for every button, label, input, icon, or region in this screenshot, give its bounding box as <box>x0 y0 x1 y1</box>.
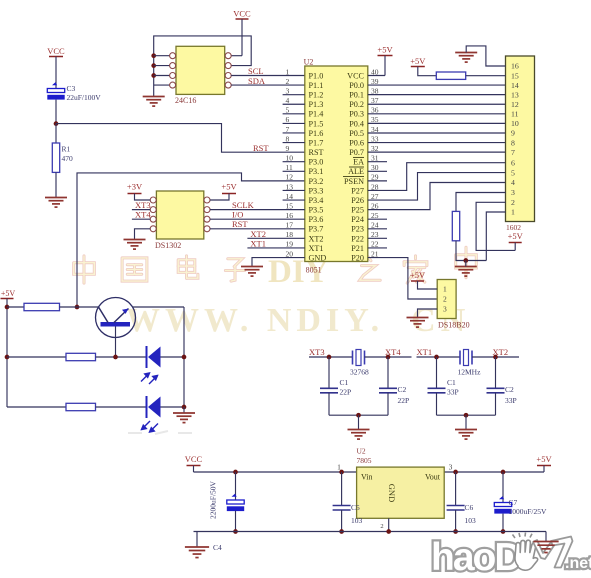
svg-text:P0.6: P0.6 <box>349 138 364 147</box>
svg-text:33P: 33P <box>505 396 517 405</box>
wire LED1 to right rail <box>161 356 185 358</box>
wire P27 (pin28) to LCD pin6 <box>368 163 506 191</box>
crystal Y? 12MHz [MCU osc] <box>460 350 472 366</box>
8051 left unconnected pin stubs <box>283 95 305 200</box>
svg-text:C7: C7 <box>509 498 518 507</box>
label DS18B20 <box>438 321 470 330</box>
junction left rail row1 <box>5 305 10 310</box>
svg-text:3: 3 <box>511 188 515 197</box>
crystal Y? 32768 [RTC osc] <box>353 350 365 366</box>
wire right rail to ground <box>183 407 185 413</box>
value 103 (C5) <box>351 516 363 525</box>
svg-text:1: 1 <box>511 208 515 217</box>
IC U2 8051 body <box>305 66 368 262</box>
junction C6 bottom <box>453 529 458 534</box>
svg-text:P3.0: P3.0 <box>309 158 324 167</box>
wire rail to 24C16 pin2 <box>154 65 170 67</box>
wire P0.5 (pin 34) to LCD pin 9 <box>368 132 506 134</box>
capacitor C2 22P [RTC osc] <box>379 388 397 393</box>
net label XT3 (DS1302) <box>135 200 151 210</box>
svg-text:P25: P25 <box>351 206 364 215</box>
wire GND (pin20) to ground <box>252 258 305 267</box>
svg-text:U2: U2 <box>304 58 314 67</box>
capacitor C6 103 <box>447 506 465 511</box>
svg-text:5: 5 <box>511 168 515 177</box>
ground (LED block) <box>173 413 195 423</box>
value 470 <box>62 154 74 163</box>
svg-text:XT2: XT2 <box>250 229 266 239</box>
IC DS1302 RTC <box>150 191 210 239</box>
ground (supply right) <box>533 542 558 553</box>
svg-text:P21: P21 <box>351 244 364 253</box>
svg-text:1: 1 <box>337 463 341 472</box>
net label RST <box>253 143 269 153</box>
ground (24C16) <box>143 97 165 107</box>
svg-text:+5V: +5V <box>221 182 237 192</box>
ground (LCD pin16) <box>455 53 477 63</box>
svg-text:P1.0: P1.0 <box>309 71 324 80</box>
power +5V (DS1302 pin8) <box>210 182 237 201</box>
wire to capacitor C1 [RTC osc] <box>328 357 330 388</box>
ground (8051 pin20) <box>241 267 263 277</box>
wire C7 top <box>502 472 504 503</box>
svg-text:P1.6: P1.6 <box>309 129 324 138</box>
svg-text:1: 1 <box>286 67 290 76</box>
wire row1 to resistor R2 <box>7 306 24 308</box>
wire P0.7 (pin 32) to LCD pin 7 <box>368 151 506 153</box>
svg-text:103: 103 <box>351 516 363 525</box>
wire crystal to XT4 [RTC osc] <box>365 356 412 358</box>
regulator U2 7805 body <box>357 467 445 518</box>
wire C6 bottom <box>455 510 457 532</box>
junction XT1 [MCU osc] <box>434 355 439 360</box>
ground (DS18B20) <box>407 318 429 328</box>
ground (32768 circuit) [RTC osc] <box>348 430 370 440</box>
watermark char jia <box>404 256 427 283</box>
wire C2 to bottom rail [RTC osc] <box>387 393 389 415</box>
svg-text:12MHz: 12MHz <box>458 368 482 377</box>
svg-text:P20: P20 <box>351 253 364 262</box>
wire P0.4 (pin 35) to LCD pin 10 <box>368 122 506 124</box>
power +5V (LCD pin2) <box>508 231 524 250</box>
label C7 <box>509 498 518 507</box>
value 33P [MCU osc] <box>505 396 517 405</box>
wire P0.2 (pin 37) to LCD pin 12 <box>368 103 506 105</box>
svg-text:R1: R1 <box>62 145 71 154</box>
label 1602 <box>506 223 521 232</box>
svg-text:P1.5: P1.5 <box>309 119 324 128</box>
ground (DS1302) <box>124 240 146 250</box>
svg-text:DS18B20: DS18B20 <box>438 321 470 330</box>
wire C4 bottom <box>235 511 237 532</box>
wire C6 top <box>455 472 457 506</box>
wire rail to 24C16 pin1 <box>154 55 170 57</box>
svg-text:C2: C2 <box>398 385 407 394</box>
ground (12MHz circuit) [MCU osc] <box>455 430 477 440</box>
junction right rail row3 <box>182 405 187 410</box>
wire crystal to XT2 [MCU osc] <box>472 356 519 358</box>
svg-text:C2: C2 <box>505 385 514 394</box>
wire P0.3 (pin 36) to LCD pin 11 <box>368 113 506 115</box>
svg-text:11: 11 <box>511 110 519 119</box>
svg-text:P1.1: P1.1 <box>309 81 324 90</box>
wire rail to 24C16 pin4 <box>154 84 170 86</box>
wire R4 to LED2 <box>96 406 147 408</box>
junction C5 bottom <box>339 529 344 534</box>
value 2200uF/50V (rotated) <box>209 480 218 519</box>
power VCC (top-left) <box>47 46 65 89</box>
label DS1302 <box>155 241 181 250</box>
wire rail to ground [RTC osc] <box>358 415 360 429</box>
svg-text:2200uF/50V: 2200uF/50V <box>209 480 218 519</box>
power +5V (LCD pin15 backlight) <box>410 56 436 76</box>
wire transistor right to right rail <box>133 306 185 308</box>
label C1 [MCU osc] <box>447 378 456 387</box>
watermark char dian <box>178 256 198 278</box>
net label SCLK <box>232 200 255 210</box>
ground (supply left) <box>185 547 209 558</box>
junction 7805 gnd on bottom rail <box>386 529 391 534</box>
svg-text:XT3: XT3 <box>309 347 325 357</box>
wire 7805 GND pin2 stub <box>388 518 390 531</box>
svg-text:SDA: SDA <box>248 76 266 86</box>
junction bottom rail [MCU osc] <box>464 413 469 418</box>
junction XT2 [MCU osc] <box>493 355 498 360</box>
wire rail to 24C16 pin3 <box>154 75 170 77</box>
wire LED2 to right rail <box>161 406 185 408</box>
svg-text:P1.3: P1.3 <box>309 100 324 109</box>
logo haoDIY.net <box>431 533 591 578</box>
svg-text:14: 14 <box>511 81 519 90</box>
junction C7 top <box>501 470 506 475</box>
8051 left pin names <box>309 71 327 262</box>
power +3V (DS1302 pin1) <box>127 182 150 201</box>
8051 right pin names (EA ALE PSEN with overline) <box>343 71 365 262</box>
svg-text:SCL: SCL <box>248 66 264 76</box>
svg-text:VCC: VCC <box>233 9 251 19</box>
value 32768 [RTC osc] <box>350 368 369 377</box>
svg-text:haoD: haoD <box>431 536 521 578</box>
capacitor C1 22P [RTC osc] <box>320 388 338 393</box>
power +5V (DS18B20 pin1) <box>410 270 437 289</box>
watermark faint residue <box>128 431 192 434</box>
wire I/O DS1302 to 8051 pin16 <box>210 218 305 220</box>
wire C5 top <box>341 472 343 506</box>
svg-text:C6: C6 <box>465 503 474 512</box>
junction left rail row2 <box>5 355 10 360</box>
wire C7 bottom <box>502 514 504 532</box>
svg-text:3: 3 <box>449 463 453 472</box>
capacitor C1 33P [MCU osc] <box>428 388 446 393</box>
value 103 (C6) <box>465 516 477 525</box>
svg-text:+5V: +5V <box>410 270 426 280</box>
DS18B20 pin numbers <box>443 285 447 314</box>
svg-text:13: 13 <box>511 90 519 99</box>
wire bottom rail [MCU osc] <box>437 414 496 416</box>
wire supply bottom rail <box>194 531 547 533</box>
junction C4 bottom <box>233 529 238 534</box>
junction right rail row2 <box>182 355 187 360</box>
svg-text:XT1: XT1 <box>309 244 324 253</box>
svg-text:ALE: ALE <box>348 167 364 176</box>
svg-text:P3.2: P3.2 <box>309 177 324 186</box>
svg-text:XT3: XT3 <box>135 200 151 210</box>
power +5V (8051 VCC pin40) <box>368 45 394 76</box>
wire left rail vertical <box>6 307 8 407</box>
svg-text:P0.4: P0.4 <box>349 119 364 128</box>
wire C3 to node A <box>55 100 57 124</box>
junction XT4 [RTC osc] <box>386 355 391 360</box>
svg-text:15: 15 <box>511 71 519 80</box>
wire resistor to LCD pin15 <box>466 75 506 77</box>
ground (below R1) <box>45 198 67 208</box>
svg-text:7805: 7805 <box>357 456 372 465</box>
wire node A to 8051 RST pin 9 <box>56 124 305 153</box>
svg-text:22P: 22P <box>398 396 410 405</box>
wire row2 to resistor R3 <box>7 356 66 358</box>
wire bottom rail right stem <box>545 532 547 542</box>
wire 24C16 pin7 loop to ground rail <box>154 36 252 97</box>
power VCC (supply input) <box>185 454 203 472</box>
value 22P [RTC osc] <box>398 396 410 405</box>
capacitor C4 2200uF/50V <box>227 494 244 511</box>
svg-text:P3.4: P3.4 <box>309 196 324 205</box>
wire DS1302 pin4 to ground <box>135 229 151 240</box>
svg-text:+3V: +3V <box>127 182 143 192</box>
label 24C16 <box>175 96 196 105</box>
wire right rail vertical <box>183 307 185 407</box>
svg-text:C1: C1 <box>447 378 456 387</box>
wire rail to ground [MCU osc] <box>465 415 467 429</box>
wire DS18B20 pin3 to ground <box>418 309 438 318</box>
svg-text:Vin: Vin <box>361 473 373 482</box>
watermark char zhi <box>360 257 381 280</box>
ground (node C) <box>455 267 477 277</box>
svg-text:P26: P26 <box>351 196 364 205</box>
svg-text:9: 9 <box>511 129 515 138</box>
wire DS1302 XT4 pin <box>132 218 150 220</box>
node B junction (base rail) <box>75 305 80 310</box>
net label XT2 [MCU osc] <box>493 347 509 357</box>
junction bottom rail [RTC osc] <box>356 413 361 418</box>
wire R2 to transistor <box>60 306 99 308</box>
wire VCC to 24C16 pin8 <box>231 55 242 57</box>
svg-text:2: 2 <box>443 295 447 304</box>
wire crystal net XT1 [MCU osc] <box>417 356 461 358</box>
svg-text:DS1302: DS1302 <box>155 241 181 250</box>
designator U2 (8051) <box>304 58 314 67</box>
wire RST DS1302 to 8051 pin17 <box>210 228 305 230</box>
pin number 3 (7805) <box>449 463 453 472</box>
svg-text:+5V: +5V <box>1 289 16 298</box>
svg-text:+5V: +5V <box>508 231 524 241</box>
capacitor C7 1000uF/25V <box>494 496 511 513</box>
svg-text:P3.6: P3.6 <box>309 215 324 224</box>
wire to capacitor C1 [MCU osc] <box>436 357 438 388</box>
junction C7 bottom <box>501 529 506 534</box>
8051 right pin numbers 40-21 <box>371 67 379 258</box>
wire P0.1 (pin 38) to LCD pin 13 <box>368 94 506 96</box>
svg-text:32768: 32768 <box>350 368 369 377</box>
wire P0.0 (pin 39) to LCD pin 14 <box>368 84 506 86</box>
wire SCL 24C16 to 8051 pin1 <box>231 75 305 77</box>
svg-text:GND: GND <box>387 484 397 502</box>
node A junction <box>54 121 59 126</box>
sensor DS18B20 body <box>437 280 456 319</box>
capacitor C5 103 <box>333 506 351 511</box>
svg-text:470: 470 <box>62 154 74 163</box>
junction C5 top <box>339 470 344 475</box>
wire C1 to bottom rail [RTC osc] <box>328 393 330 415</box>
svg-text:P0.1: P0.1 <box>349 91 364 100</box>
connector 1602 LCD body <box>506 56 535 222</box>
svg-text:P24: P24 <box>351 215 364 224</box>
svg-text:P27: P27 <box>351 186 364 195</box>
wire DS1302 XT3 pin <box>132 209 150 211</box>
watermark char zhong(2) partial <box>456 247 477 278</box>
value 33P [MCU osc] <box>447 388 459 397</box>
label 7805 <box>357 456 372 465</box>
svg-text:+5V: +5V <box>377 45 393 55</box>
svg-text:SCLK: SCLK <box>232 200 255 210</box>
svg-text:P3.1: P3.1 <box>309 167 324 176</box>
label C4 <box>213 543 222 552</box>
svg-text:EA: EA <box>353 158 364 167</box>
wire crystal net XT3 [RTC osc] <box>309 356 353 358</box>
wire bottom rail [RTC osc] <box>329 414 388 416</box>
wire contrast resistor to node C <box>456 241 486 261</box>
wire LCD pin1 to node C <box>486 212 505 261</box>
svg-text:P1.4: P1.4 <box>309 110 324 119</box>
net label XT2 <box>250 229 266 239</box>
net label XT3 [RTC osc] <box>309 347 325 357</box>
resistor R4 (LED2 row) <box>66 403 96 410</box>
wire P0.6 (pin 33) to LCD pin 8 <box>368 142 506 144</box>
svg-text:103: 103 <box>465 516 477 525</box>
junction transistor base on row2 <box>113 355 118 360</box>
net label XT1 <box>250 239 266 249</box>
pin number 1 (7805) <box>337 463 341 472</box>
junction XT3 [RTC osc] <box>327 355 332 360</box>
wire XT2 (pin18) <box>247 237 304 239</box>
svg-text:XT2: XT2 <box>309 234 324 243</box>
svg-text:7: 7 <box>511 148 515 157</box>
svg-text:16: 16 <box>511 62 519 71</box>
svg-text:P1.2: P1.2 <box>309 91 324 100</box>
8051 right unconnected pin stubs <box>368 162 387 248</box>
label C1 [RTC osc] <box>340 378 349 387</box>
junction 24C16 left pin3 <box>151 73 156 78</box>
svg-text:22P: 22P <box>340 388 352 397</box>
svg-text:10: 10 <box>511 119 519 128</box>
svg-text:P22: P22 <box>351 234 364 243</box>
net label I/O <box>232 210 243 220</box>
wire 8051 pin12 P3.2 to left circuit <box>77 173 305 307</box>
svg-text:VCC: VCC <box>185 454 203 464</box>
resistor R? (LCD contrast) <box>452 211 459 240</box>
value 22P [RTC osc] <box>340 388 352 397</box>
svg-text:+5V: +5V <box>410 56 426 66</box>
label C2 [MCU osc] <box>505 385 514 394</box>
resistor R2 (base row) <box>24 303 60 310</box>
svg-text:RST: RST <box>309 148 324 157</box>
svg-text:2: 2 <box>380 523 383 530</box>
pin number 2 (7805) <box>380 523 383 530</box>
svg-text:8: 8 <box>511 138 515 147</box>
junction C4 top <box>233 470 238 475</box>
svg-text:C3: C3 <box>67 84 76 93</box>
svg-text:1: 1 <box>443 285 447 294</box>
wire transistor base stem <box>115 327 117 358</box>
svg-text:9: 9 <box>286 144 290 153</box>
wire SCLK DS1302 to 8051 pin15 <box>210 209 305 211</box>
svg-text:P0.0: P0.0 <box>349 81 364 90</box>
label R1 <box>62 145 71 154</box>
svg-text:P0.5: P0.5 <box>349 129 364 138</box>
net label XT4 [RTC osc] <box>385 347 401 357</box>
wire P20 (pin21) to DS18B20 pin2 <box>368 258 437 299</box>
svg-text:8051: 8051 <box>306 266 322 275</box>
svg-text:P0.2: P0.2 <box>349 100 364 109</box>
svg-text:22uF/100V: 22uF/100V <box>67 93 102 102</box>
svg-text:P3.5: P3.5 <box>309 206 324 215</box>
svg-text:C5: C5 <box>351 503 360 512</box>
power +5V (left rail) <box>1 289 16 307</box>
resistor R3 (LED1 row) <box>66 353 96 360</box>
svg-text:.net: .net <box>565 555 591 572</box>
svg-text:P0.7: P0.7 <box>349 148 364 157</box>
wire XT1 (pin19) <box>247 247 304 249</box>
1602 pin numbers 16-1 <box>511 62 519 217</box>
svg-text:12: 12 <box>511 100 519 109</box>
wire LCD pin2 to +5V <box>476 202 515 250</box>
svg-text:VCC: VCC <box>47 46 65 56</box>
junction C6 top <box>453 470 458 475</box>
svg-text:P3.7: P3.7 <box>309 225 324 234</box>
value 22uF/100V <box>67 93 102 102</box>
power VCC (24C16) <box>233 9 251 56</box>
transistor Q1 (NPN) <box>96 298 136 338</box>
svg-text:P23: P23 <box>351 225 364 234</box>
label C3 <box>67 84 76 93</box>
net label SCL <box>248 66 264 76</box>
junction 24C16 left pin1 <box>151 53 156 58</box>
svg-text:I/O: I/O <box>232 210 243 220</box>
svg-text:VCC: VCC <box>347 71 364 80</box>
wire row3 to resistor R4 <box>7 406 66 408</box>
wire node C stem <box>465 261 467 267</box>
wire SDA 24C16 to 8051 pin2 <box>231 84 305 86</box>
svg-text:P0.3: P0.3 <box>349 110 364 119</box>
value 12MHz [MCU osc] <box>458 368 482 377</box>
value 1000uF/25V <box>509 507 548 516</box>
wire P26 (pin27) to LCD pin5 <box>368 173 506 200</box>
wire supply top rail <box>194 471 545 473</box>
svg-text:2: 2 <box>511 198 515 207</box>
svg-text:RST: RST <box>232 219 248 229</box>
wire to capacitor C2 [MCU osc] <box>495 357 497 388</box>
svg-text:XT1: XT1 <box>250 239 266 249</box>
label C6 <box>465 503 474 512</box>
wire P25 (pin26) to LCD pin4 <box>368 183 506 210</box>
wire LCD pin16 to ground <box>466 46 505 66</box>
svg-text:P1.7: P1.7 <box>309 138 324 147</box>
svg-text:33P: 33P <box>447 388 459 397</box>
svg-text:GND: GND <box>309 253 327 262</box>
IC U? 24C16 EEPROM <box>170 46 232 94</box>
label C2 [RTC osc] <box>398 385 407 394</box>
svg-text:+5V: +5V <box>536 454 552 464</box>
